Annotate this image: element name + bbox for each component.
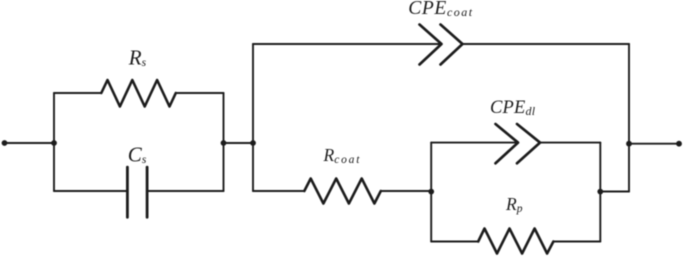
wire inner bottom branch right (553, 241, 600, 243)
right terminal dot (676, 141, 682, 147)
wire inner box to outer right vertical (600, 191, 629, 193)
CPE2 (CPEdl) (496, 124, 541, 163)
wire outer box right vertical (628, 44, 630, 192)
node inner box input dot (428, 189, 434, 195)
wire top branch right (176, 92, 224, 94)
wire outer top branch left (253, 43, 441, 45)
resistor R1 (Rs) (101, 80, 176, 107)
wire inner top branch left (431, 142, 518, 144)
wire between stages (224, 142, 254, 144)
wire inner top branch right (540, 142, 601, 144)
capacitor C1 (Cs) (127, 167, 147, 217)
wire bottom branch left (54, 190, 127, 192)
svg-text:Rs: Rs (128, 46, 147, 70)
wire outer top branch right (463, 43, 630, 45)
wire output (629, 143, 679, 145)
wire bottom branch right (147, 190, 223, 192)
wire outer bottom branch left (253, 190, 304, 192)
svg-text:Rcoat: Rcoat (323, 145, 362, 166)
wire inner bottom branch left (431, 241, 478, 243)
wire left box right vertical (223, 93, 225, 191)
wire inner box left vertical (430, 143, 432, 242)
resistor R2 (Rcoat) (304, 179, 381, 204)
node output junction dot (626, 141, 632, 147)
svg-text:CPEdl: CPEdl (490, 98, 536, 118)
left terminal dot (2, 140, 8, 146)
node outer box input dot (250, 140, 256, 146)
wire left box left vertical (53, 93, 55, 191)
resistor R3 (Rp) (478, 229, 553, 254)
wire top branch left (54, 92, 101, 94)
wire input (5, 142, 55, 144)
wire outer box left vertical (252, 44, 254, 191)
svg-text:Rp: Rp (505, 194, 523, 215)
CPE1 (CPEcoat) (420, 25, 463, 65)
node left box output dot (221, 140, 227, 146)
svg-text:CPEcoat: CPEcoat (408, 0, 473, 19)
wire inner box right vertical (599, 143, 601, 242)
node inner box output dot (597, 189, 603, 195)
wire Rcoat to inner box (381, 190, 431, 192)
svg-text:Cs: Cs (128, 143, 147, 167)
node input junction dot (51, 140, 57, 146)
